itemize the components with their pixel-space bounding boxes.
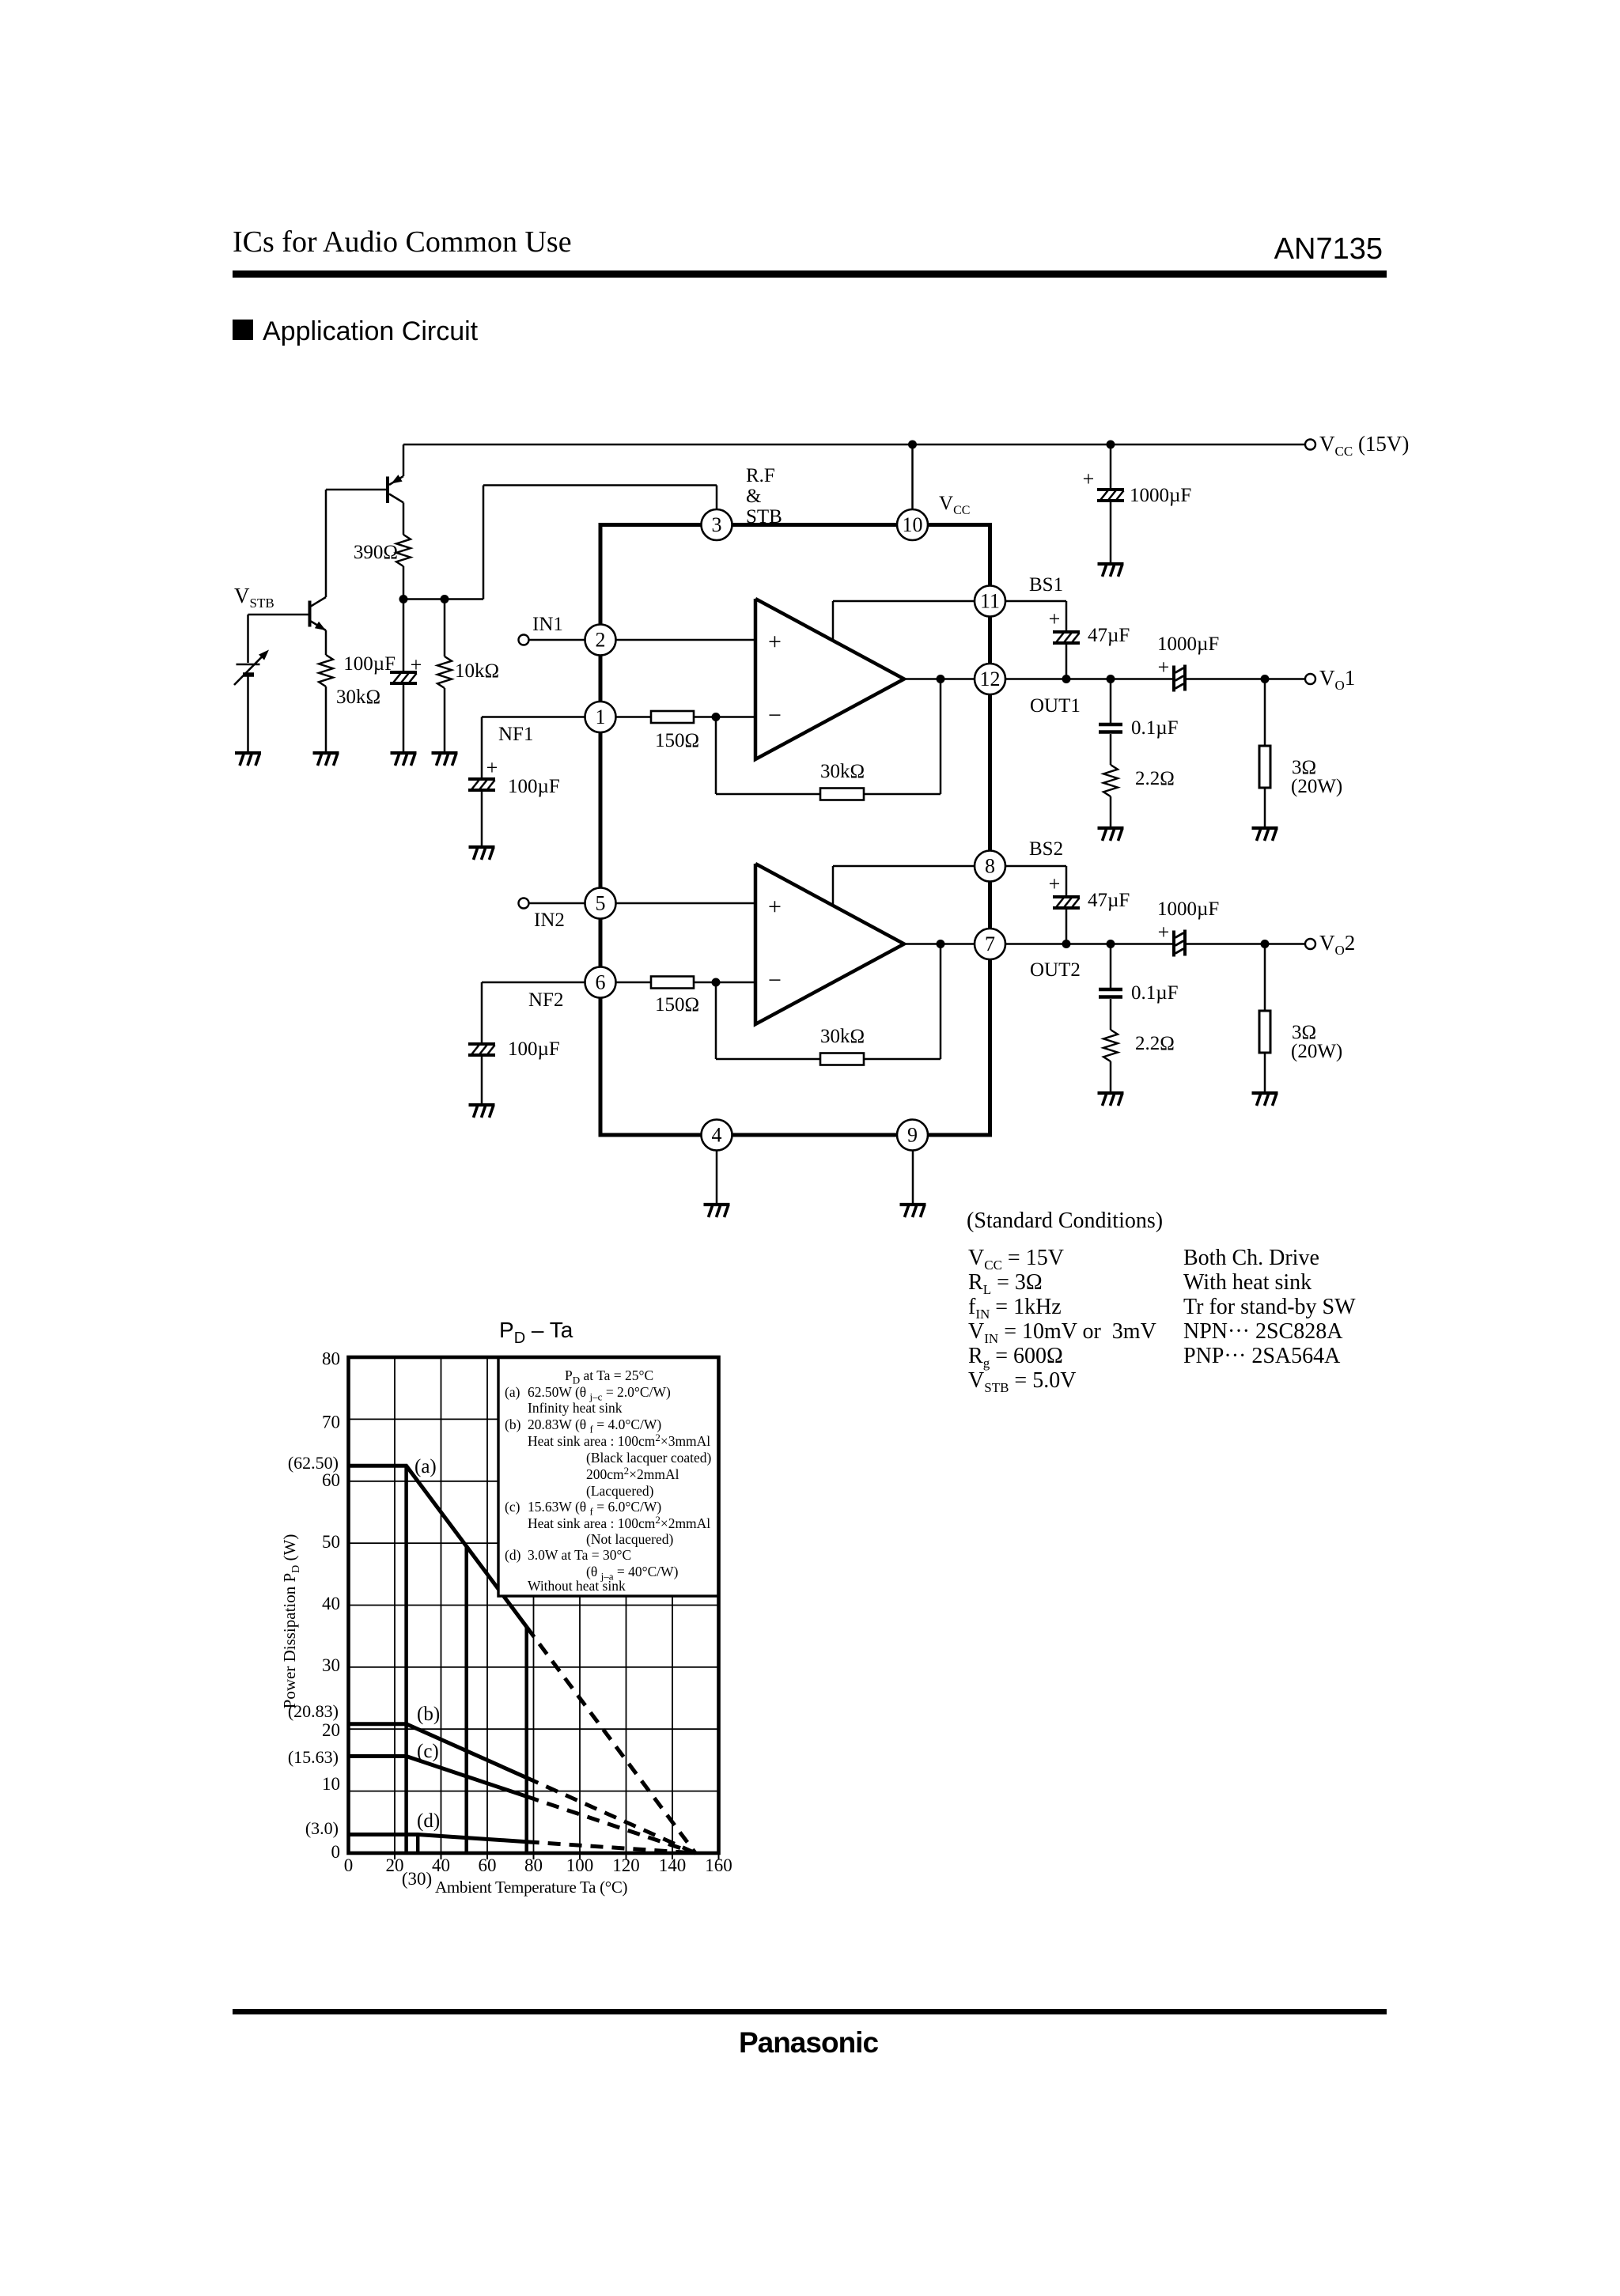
- junction VCC/pin10: [908, 441, 917, 449]
- ground (NF2): [469, 1105, 495, 1118]
- transistor Q2 (NPN 2SC828A): [310, 490, 327, 655]
- svg-text:AN7135: AN7135: [1274, 233, 1383, 266]
- svg-text:+: +: [1158, 656, 1170, 679]
- capacitor 1000&#181;F (VCC): [1110, 444, 1112, 488]
- svg-text:(20W): (20W): [1291, 1041, 1342, 1062]
- svg-text:80: 80: [322, 1349, 340, 1369]
- svg-text:12: 12: [980, 668, 1001, 690]
- svg-text:Tr for stand-by SW: Tr for stand-by SW: [1183, 1295, 1356, 1319]
- svg-text:RL = 3Ω: RL = 3Ω: [968, 1270, 1043, 1297]
- resistor 150&#937; (ch2): [651, 977, 694, 989]
- svg-text:(a): (a): [505, 1384, 520, 1400]
- svg-text:10kΩ: 10kΩ: [455, 660, 499, 682]
- svg-text:1000µF: 1000µF: [1157, 634, 1219, 655]
- svg-text:100µF: 100µF: [508, 1038, 560, 1060]
- graph gridlines: [349, 1357, 719, 1853]
- svg-text:2: 2: [596, 629, 606, 652]
- svg-text:7: 7: [985, 932, 995, 955]
- svg-text:3: 3: [712, 513, 722, 536]
- wire IN1 to pin2: [529, 639, 586, 641]
- svg-text:4: 4: [712, 1124, 722, 1147]
- resistor 10k&#937;: [444, 600, 446, 657]
- svg-text:BS2: BS2: [1029, 838, 1063, 860]
- svg-text:40: 40: [322, 1594, 340, 1613]
- svg-text:100: 100: [566, 1855, 594, 1875]
- terminal Vo1: [1305, 674, 1315, 684]
- pin 11: [975, 586, 1005, 617]
- svg-text:+: +: [1049, 872, 1061, 895]
- pin 9: [897, 1120, 928, 1151]
- svg-text:VCC (15V): VCC (15V): [1319, 432, 1409, 459]
- ground (ch2 load): [1252, 1093, 1278, 1106]
- wire OUT1: [1005, 678, 1174, 680]
- svg-text:(3.0): (3.0): [305, 1818, 339, 1838]
- pin 6: [585, 967, 616, 998]
- svg-text:(Black lacquer coated): (Black lacquer coated): [586, 1450, 712, 1466]
- svg-text:10: 10: [322, 1774, 340, 1794]
- svg-text:+: +: [1083, 467, 1095, 490]
- svg-text:PNP··· 2SA564A: PNP··· 2SA564A: [1183, 1344, 1341, 1368]
- capacitor 100uF (NF1): [468, 779, 495, 790]
- svg-text:With heat sink: With heat sink: [1183, 1270, 1312, 1295]
- svg-text:2.2Ω: 2.2Ω: [1135, 768, 1175, 789]
- svg-text:1: 1: [596, 705, 606, 728]
- wire pin1 to 150ohm: [617, 716, 652, 718]
- svg-text:1000µF: 1000µF: [1130, 485, 1191, 506]
- footer rule: [233, 2009, 1387, 2014]
- svg-text:3Ω: 3Ω: [1292, 757, 1316, 778]
- svg-text:3.0W at Ta = 30°C: 3.0W at Ta = 30°C: [528, 1547, 631, 1563]
- pin 10: [897, 509, 928, 540]
- resistor 30k&#937; (feedback ch2): [820, 1053, 864, 1065]
- svg-text:100µF: 100µF: [343, 653, 396, 675]
- svg-text:(d): (d): [417, 1810, 440, 1832]
- svg-text:−: −: [768, 967, 782, 993]
- svg-text:(c): (c): [505, 1499, 520, 1515]
- svg-text:40: 40: [432, 1855, 450, 1875]
- resistor 150&#937; (ch1): [651, 711, 694, 723]
- svg-text:(30): (30): [402, 1869, 432, 1889]
- wire pin6 to NF2: [482, 982, 585, 984]
- svg-text:(b): (b): [505, 1417, 521, 1432]
- pin 8: [975, 851, 1005, 882]
- svg-text:390Ω: 390Ω: [354, 542, 398, 563]
- svg-text:10: 10: [903, 513, 923, 536]
- ground (ch2 zobel): [1098, 1093, 1124, 1106]
- pin 3: [702, 509, 732, 540]
- svg-text:NPN··· 2SC828A: NPN··· 2SC828A: [1183, 1319, 1343, 1344]
- svg-text:2.2Ω: 2.2Ω: [1135, 1033, 1175, 1054]
- svg-text:OUT2: OUT2: [1030, 959, 1081, 981]
- variable source VSTB: [234, 615, 269, 753]
- ground (VCC cap): [1098, 564, 1124, 577]
- junction OUT1 feedback: [937, 675, 945, 683]
- capacitor 0.1&#181;F (ch2): [1110, 944, 1112, 989]
- svg-text:3Ω: 3Ω: [1292, 1022, 1316, 1043]
- wire pin6 to 150ohm ch2: [616, 982, 651, 984]
- wire BS1 tap: [832, 601, 835, 641]
- terminal VCC: [1305, 440, 1315, 450]
- svg-text:+: +: [411, 653, 422, 676]
- svg-text:(62.50): (62.50): [288, 1453, 339, 1473]
- svg-text:80: 80: [524, 1855, 543, 1875]
- ground (VSTB): [235, 753, 261, 766]
- wire pin4 ground: [716, 1151, 718, 1205]
- svg-text:70: 70: [322, 1413, 340, 1432]
- svg-text:47µF: 47µF: [1088, 625, 1130, 646]
- graph x ticks: [395, 1853, 719, 1859]
- svg-text:150Ω: 150Ω: [655, 730, 699, 751]
- ground (ch1 zobel): [1098, 828, 1124, 841]
- junction VCC/1000uF: [1107, 441, 1115, 449]
- svg-text:(Standard Conditions): (Standard Conditions): [967, 1209, 1163, 1233]
- svg-text:0: 0: [344, 1855, 354, 1875]
- wire pin5 to A2+: [616, 902, 755, 905]
- wire pin9 ground: [912, 1151, 914, 1205]
- transistor Q1 (PNP 2SA564A): [388, 444, 403, 535]
- resistor 30k&#937; (emitter): [319, 655, 333, 687]
- wire OUT2: [1005, 943, 1174, 945]
- wire bias node row: [403, 598, 483, 600]
- svg-text:+: +: [768, 629, 782, 655]
- graph frame: [349, 1357, 719, 1853]
- wire pin1 to NF1: [482, 716, 585, 718]
- svg-text:120: 120: [612, 1855, 640, 1875]
- pin 2: [585, 625, 616, 656]
- svg-text:6: 6: [596, 971, 606, 994]
- svg-text:30kΩ: 30kΩ: [820, 1026, 865, 1047]
- wire VCC rail: [403, 444, 1305, 446]
- wire Q2 collector to Q1 base: [326, 489, 386, 491]
- ground (NF1): [469, 847, 495, 860]
- capacitor 100uF (NF2): [468, 1044, 495, 1055]
- ground (pin9): [900, 1205, 926, 1217]
- svg-text:60: 60: [322, 1470, 340, 1490]
- junction OUT2 feedback: [937, 940, 945, 948]
- svg-text:30kΩ: 30kΩ: [336, 687, 380, 708]
- svg-text:9: 9: [907, 1124, 918, 1147]
- svg-text:Ambient Temperature Ta (°C): Ambient Temperature Ta (°C): [435, 1878, 628, 1897]
- svg-text:8: 8: [985, 855, 995, 878]
- capacitor 47&#181;F (BS1): [1053, 632, 1080, 643]
- svg-text:BS1: BS1: [1029, 574, 1063, 596]
- svg-text:+: +: [486, 756, 498, 779]
- svg-text:15.63W (θ f = 6.0°C/W): 15.63W (θ f = 6.0°C/W): [528, 1499, 661, 1518]
- svg-text:150Ω: 150Ω: [655, 994, 699, 1016]
- svg-text:Both Ch. Drive: Both Ch. Drive: [1183, 1246, 1319, 1270]
- svg-text:Without heat sink: Without heat sink: [528, 1578, 626, 1594]
- svg-text:11: 11: [980, 590, 1000, 613]
- svg-text:(d): (d): [505, 1547, 521, 1563]
- header rule: [233, 270, 1387, 278]
- svg-text:47µF: 47µF: [1088, 890, 1130, 911]
- svg-text:+: +: [768, 894, 782, 920]
- ground (30k): [313, 753, 339, 766]
- wire VSTB to Q2 base: [248, 614, 308, 616]
- capacitor 47&#181;F (BS2): [1053, 897, 1080, 908]
- junction NF1/feedback: [712, 713, 721, 721]
- svg-text:1000µF: 1000µF: [1157, 898, 1219, 920]
- svg-text:20: 20: [322, 1720, 340, 1740]
- svg-text:200cm2×2mmAl: 200cm2×2mmAl: [586, 1465, 679, 1482]
- svg-text:0.1µF: 0.1µF: [1131, 982, 1179, 1004]
- svg-text:Power Dissipation PD (W): Power Dissipation PD (W): [280, 1534, 302, 1709]
- wire A2 output to pin7: [904, 943, 975, 945]
- svg-text:60: 60: [479, 1855, 497, 1875]
- wire BS2 tap: [832, 866, 835, 906]
- curve (d) 3.0W: [349, 1835, 527, 1842]
- svg-text:Heat sink area : 100cm2×2mmAl: Heat sink area : 100cm2×2mmAl: [528, 1514, 710, 1531]
- junction NF2/feedback: [712, 978, 721, 987]
- capacitor 1000&#181;F (OUT1): [1174, 665, 1185, 692]
- svg-text:(20W): (20W): [1291, 776, 1342, 797]
- svg-text:ICs for Audio Common Use: ICs for Audio Common Use: [233, 225, 572, 259]
- curve (a) 62.50W: [349, 1466, 527, 1627]
- svg-text:Infinity heat sink: Infinity heat sink: [528, 1400, 623, 1416]
- curve (c) 15.63W: [349, 1757, 527, 1797]
- resistor 30k&#937; (feedback ch1): [820, 789, 864, 800]
- svg-text:NF1: NF1: [498, 724, 533, 745]
- svg-text:(15.63): (15.63): [288, 1747, 339, 1767]
- svg-text:(a): (a): [414, 1456, 437, 1477]
- graph legend box: [498, 1357, 719, 1596]
- svg-text:0.1µF: 0.1µF: [1131, 717, 1179, 739]
- svg-text:−: −: [768, 702, 782, 728]
- wire IN2 to pin5: [529, 902, 586, 905]
- svg-text:(Lacquered): (Lacquered): [586, 1483, 654, 1499]
- svg-text:NF2: NF2: [528, 989, 563, 1011]
- svg-text:50: 50: [322, 1532, 340, 1552]
- op-amp A1: [755, 599, 904, 759]
- ground (pin4): [704, 1205, 730, 1217]
- svg-text:IN1: IN1: [532, 614, 563, 635]
- svg-text:5: 5: [596, 892, 606, 915]
- junction bias node A: [399, 595, 408, 603]
- pin 12: [975, 664, 1005, 694]
- svg-text:+: +: [1049, 607, 1061, 630]
- capacitor 1000&#181;F (OUT2): [1174, 930, 1185, 957]
- op-amp A2: [755, 864, 904, 1024]
- wire pin11 to 47uF: [1005, 600, 1066, 603]
- svg-text:(c): (c): [417, 1741, 439, 1762]
- svg-text:OUT1: OUT1: [1030, 695, 1081, 717]
- pin 4: [702, 1120, 732, 1151]
- wire feedback ch1: [715, 717, 717, 795]
- pin 5: [585, 888, 616, 919]
- svg-text:IN2: IN2: [534, 910, 565, 931]
- resistor 390&#937;: [396, 535, 411, 566]
- svg-text:Panasonic: Panasonic: [739, 2026, 878, 2059]
- ground (ch1 load): [1252, 828, 1278, 841]
- resistor 2.2&#937; (ch2): [1103, 1030, 1118, 1061]
- graph vertical markers: [404, 1466, 408, 1853]
- junction bias node B: [441, 595, 449, 603]
- svg-text:30: 30: [322, 1655, 340, 1675]
- IC AN7135 body: [600, 525, 990, 1136]
- svg-text:Heat sink area : 100cm2×3mmAl: Heat sink area : 100cm2×3mmAl: [528, 1432, 710, 1449]
- section heading Application Circuit: [233, 320, 253, 340]
- resistor 2.2&#937; (ch1): [1103, 765, 1118, 796]
- svg-text:0: 0: [331, 1842, 341, 1862]
- pin 7: [975, 929, 1005, 959]
- pin 1: [585, 702, 616, 732]
- svg-text:30kΩ: 30kΩ: [820, 761, 865, 782]
- resistor 3&#937; 20W load (ch2): [1264, 944, 1266, 1012]
- svg-text:(Not lacquered): (Not lacquered): [586, 1531, 673, 1547]
- svg-text:VCC = 15V: VCC = 15V: [968, 1246, 1064, 1273]
- ground (10k): [432, 753, 458, 766]
- wire feedback ch2: [715, 982, 717, 1059]
- wire pin2 to A1+: [617, 639, 756, 641]
- curve (b) 20.83W: [349, 1724, 527, 1778]
- wire pin10 branch: [911, 444, 914, 509]
- svg-text:20.83W (θ f = 4.0°C/W): 20.83W (θ f = 4.0°C/W): [528, 1417, 661, 1435]
- ground (100uF bias): [391, 753, 417, 766]
- wire A1 output to pin12: [904, 678, 975, 680]
- svg-text:100µF: 100µF: [508, 776, 560, 797]
- svg-text:(b): (b): [417, 1704, 440, 1725]
- wire pin8 to 47uF ch2: [1005, 865, 1066, 868]
- terminal Vo2: [1305, 939, 1315, 949]
- svg-text:Rg = 600Ω: Rg = 600Ω: [968, 1344, 1063, 1371]
- svg-text:140: 140: [659, 1855, 687, 1875]
- capacitor 100&#181;F (bias): [403, 600, 405, 671]
- svg-text:+: +: [1158, 921, 1170, 944]
- svg-text:Application Circuit: Application Circuit: [263, 316, 479, 346]
- capacitor 0.1&#181;F (ch1): [1110, 679, 1112, 724]
- resistor 3&#937; 20W load (ch1): [1264, 679, 1266, 747]
- svg-text:160: 160: [705, 1855, 732, 1875]
